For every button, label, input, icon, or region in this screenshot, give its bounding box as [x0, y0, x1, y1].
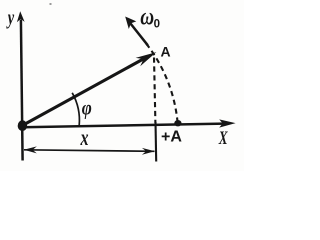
svg-text:X: X — [218, 127, 229, 149]
dashed circular arc from A to +A — [145, 42, 177, 122]
dimension left arrowhead — [24, 146, 37, 153]
x-axis label X — [218, 127, 229, 149]
dashed projection line from A to x-axis — [154, 58, 155, 124]
vector OA (rotating radius) — [23, 58, 146, 126]
svg-text:x: x — [80, 125, 89, 150]
omega0 rotation arrow — [131, 24, 148, 46]
point +A dot — [174, 120, 181, 126]
svg-text:ω: ω — [140, 3, 154, 30]
dimension label x — [80, 125, 89, 150]
x-axis — [23, 124, 224, 128]
y-axis arrowhead — [17, 11, 25, 22]
svg-text:0: 0 — [154, 18, 160, 30]
y-axis label y — [6, 6, 14, 29]
omega0 arrowhead — [125, 17, 136, 30]
svg-text:+A: +A — [161, 128, 182, 145]
svg-text:A: A — [161, 44, 171, 60]
scan speck — [50, 3, 52, 5]
svg-text:y: y — [6, 6, 14, 29]
dimension line x — [24, 150, 155, 152]
angle arc phi — [72, 93, 79, 126]
origin dot — [18, 120, 27, 131]
omega0 label — [140, 3, 154, 30]
extension line below axis — [154, 122, 157, 162]
vector arrowhead — [136, 52, 157, 66]
x-axis arrowhead — [219, 119, 235, 127]
y-axis — [21, 20, 23, 161]
svg-text:φ: φ — [82, 97, 92, 120]
phi label — [82, 97, 92, 120]
dimension right arrowhead — [142, 148, 155, 155]
